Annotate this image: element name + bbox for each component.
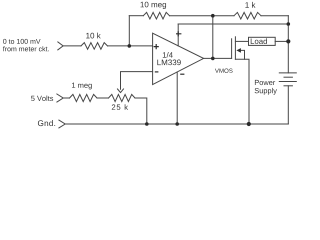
wire 1 meg to 25 k (97, 97, 109, 99)
label LM339: "LM339" (157, 60, 180, 66)
body arrow line (241, 50, 245, 59)
wire 1 k to right rail (261, 15, 288, 17)
drain stub to load (235, 40, 248, 42)
resistor 10 k (81, 43, 108, 50)
label Load: "Load" (251, 38, 267, 44)
resistor 1 meg (70, 94, 98, 101)
wire load to right rail (275, 40, 288, 42)
wiper wire to op-amp - input (121, 72, 153, 90)
label input line 2: "from meter ckt." (3, 46, 49, 51)
wire top-left segment (129, 15, 143, 17)
op-amp U1 triangle (153, 33, 204, 84)
load box (249, 37, 276, 45)
label Power: "Power" (255, 80, 275, 85)
junction output (211, 57, 215, 61)
right rail bottom (battery - to ground rail) (287, 86, 289, 124)
junction source ground (247, 122, 251, 126)
label Supply: "Supply" (255, 88, 277, 95)
junction node1 (128, 44, 132, 48)
wiper arrowhead (118, 89, 124, 93)
junction 25k ground (145, 122, 149, 126)
V- pin wire (176, 72, 178, 124)
junction feedback top (211, 14, 215, 18)
op-amp - input tick (155, 71, 159, 73)
input connector: 5 Volts chevron (57, 94, 63, 102)
label 10 meg: "10 meg" (141, 2, 167, 9)
label 1 k: "1 k" (245, 2, 255, 8)
V- pin minus tick (180, 73, 184, 75)
label 1/4: "1/4" (163, 52, 173, 58)
wire 5V to 1 meg (63, 97, 69, 99)
label 25 k: "25 k" (112, 104, 128, 110)
wire input to 10k (63, 45, 81, 47)
battery: short plate 2 (284, 85, 292, 87)
resistor 1 k (234, 12, 261, 19)
output wire (204, 57, 232, 59)
ground rail (65, 123, 288, 125)
V+ pin plus tick (176, 31, 181, 36)
body arrowhead (236, 48, 241, 53)
label 1 meg: "1 meg" (72, 83, 92, 90)
wire 10k to op-amp + input (108, 45, 153, 47)
junction V- ground (175, 122, 179, 126)
label input line 1: "0 to 100 mV" (3, 39, 40, 44)
label VMOS: "VMOS" (215, 69, 233, 73)
input connector: 0-100 mV chevron (58, 42, 63, 50)
transistor Q1 channel bar (234, 37, 236, 60)
label Gnd.: "Gnd." (38, 120, 55, 126)
label 10 k: "10 k" (86, 33, 101, 39)
junction V+ rail right (287, 22, 291, 26)
wire 25 k right end down to ground rail (135, 98, 147, 124)
wire 10 meg to 1 k (170, 15, 235, 17)
op-amp + input tick (154, 44, 159, 49)
resistor 10 meg (143, 12, 169, 19)
label 5 Volts: "5 Volts" (31, 96, 53, 101)
right rail top (to battery +) (287, 16, 289, 73)
source stub (235, 59, 249, 124)
battery: long plate 1 (279, 72, 296, 74)
potentiometer 25 k element (109, 94, 136, 101)
junction load right (286, 39, 290, 43)
transistor Q1 gate bar (231, 39, 233, 59)
V+ pin wire (177, 24, 179, 46)
wire feedback node down to output (212, 16, 214, 59)
V+ rail wire (178, 23, 288, 25)
input connector: Gnd chevron (59, 120, 65, 128)
battery: long plate 2 (279, 81, 296, 83)
node A vertical wire (feedback tap) (128, 16, 130, 46)
battery: short plate 1 (284, 76, 292, 78)
